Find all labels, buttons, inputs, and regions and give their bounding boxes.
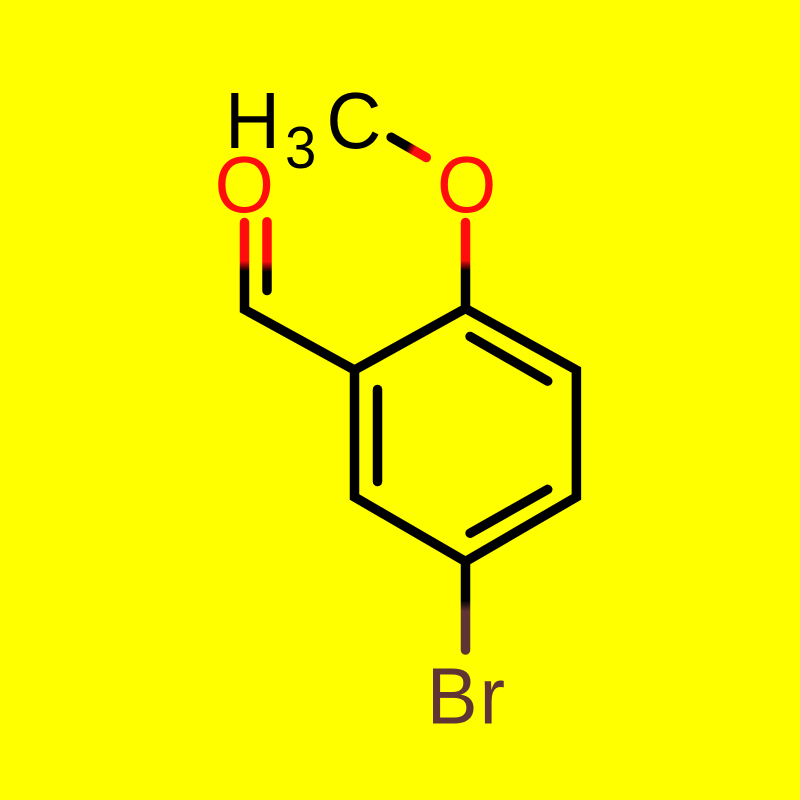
methoxy O to ring bond (red to black)	[461, 223, 471, 309]
inner double bond line, lower-right side of ring	[470, 489, 548, 533]
label H of H3C	[225, 75, 280, 165]
svg-text:C: C	[326, 75, 381, 165]
label B of Br	[427, 651, 478, 741]
label 3 subscript of H3C	[285, 116, 316, 181]
aldehyde C=O second (short) line	[262, 222, 272, 291]
benzene ring outline	[355, 309, 577, 562]
svg-text:O: O	[437, 139, 496, 229]
inner double bond line, upper-right side of ring	[470, 337, 548, 382]
aldehyde: C=O main line plus C to ring bond	[245, 223, 355, 371]
ring to Br bond (black to brown)	[461, 562, 471, 651]
label C of H3C	[326, 75, 381, 165]
svg-text:B: B	[427, 651, 478, 741]
label r of Br	[480, 651, 505, 741]
svg-text:r: r	[480, 651, 505, 741]
svg-text:3: 3	[285, 116, 316, 181]
label O of aldehyde	[215, 139, 274, 229]
inner double bond line, left side of ring	[373, 390, 383, 482]
H3C to O bond (black to red)	[391, 137, 426, 157]
svg-text:O: O	[215, 139, 274, 229]
label O of methoxy	[437, 139, 496, 229]
